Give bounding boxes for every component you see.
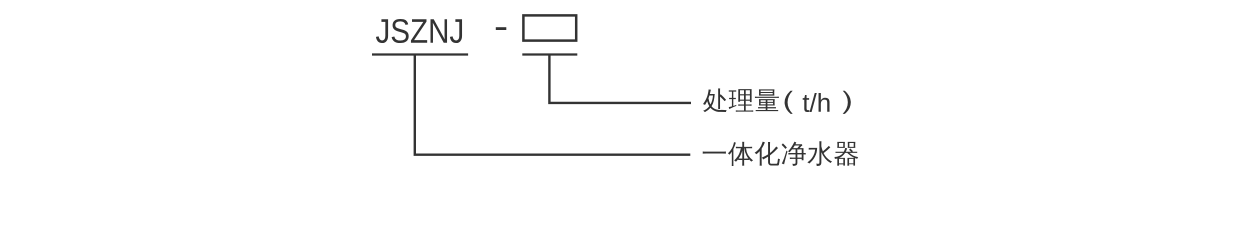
label text 处理量 <box>703 88 779 112</box>
underline under JSZNJ <box>372 53 468 55</box>
model code text JSZNJ <box>376 19 462 43</box>
dash separator <box>496 27 507 30</box>
label fullwidth close paren <box>843 91 851 114</box>
empty spec box <box>523 15 576 40</box>
label text 一体化净水器 <box>703 141 859 166</box>
label text t/h <box>803 93 830 112</box>
wire from spec box underline down and right to capacity label <box>549 55 691 103</box>
wire from JSZNJ underline down and right to purifier label <box>415 55 691 155</box>
underline under spec box <box>522 53 577 55</box>
label fullwidth open paren <box>785 91 793 114</box>
